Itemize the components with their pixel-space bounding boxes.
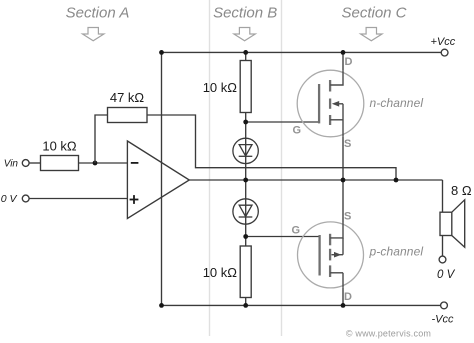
terminal 0V input <box>22 195 29 202</box>
op-amp U1 triangle <box>127 141 189 219</box>
junction feedback / output <box>394 178 399 183</box>
node inverting input junction <box>93 161 98 166</box>
wire feedback R2 to output node <box>147 115 396 180</box>
svg-text:S: S <box>344 211 351 223</box>
arrow Section C <box>361 28 382 41</box>
resistor R3 10k bias upper <box>240 61 251 113</box>
svg-text:10 kΩ: 10 kΩ <box>203 265 238 280</box>
wire source Q1 to output <box>342 137 344 180</box>
svg-text:Section B: Section B <box>213 5 277 22</box>
wire junction up to R2 <box>95 115 108 163</box>
junction top rail / Q1 drain <box>341 50 346 55</box>
svg-text:-Vcc: -Vcc <box>432 314 455 326</box>
wire source Q2 from output <box>342 180 344 222</box>
junction bottom rail / Q2 drain <box>341 303 346 308</box>
terminal 0V speaker <box>439 256 446 263</box>
resistor R1 10k input <box>41 156 79 171</box>
svg-text:D: D <box>345 56 353 68</box>
wire drain Q1 from top rail <box>342 52 344 70</box>
junction D2 / R4 / gate Q2 <box>243 234 248 239</box>
svg-text:D: D <box>344 291 352 303</box>
junction R3 / D1 / gate Q1 <box>243 120 248 125</box>
svg-text:G: G <box>292 225 301 237</box>
svg-text:n-channel: n-channel <box>370 96 424 110</box>
terminal Vin <box>22 160 29 167</box>
wire gate Q1 <box>246 121 319 123</box>
wire R1 to inverting input <box>79 162 128 164</box>
op-amp inverting input marker <box>131 162 139 164</box>
terminal -Vcc <box>441 302 448 309</box>
transistor Q1 n-channel MOSFET <box>297 70 364 137</box>
resistor R4 10k bias lower <box>240 246 251 298</box>
svg-text:0 V: 0 V <box>437 269 456 281</box>
arrow Section A <box>83 28 104 41</box>
speaker LS1 <box>440 200 465 247</box>
terminal +Vcc <box>441 49 448 56</box>
junction top rail / supply line <box>159 50 164 55</box>
junction sources / output <box>341 178 346 183</box>
wire -Vcc bottom rail <box>162 304 441 306</box>
wire output node through diode D2 to R4 <box>245 180 247 246</box>
svg-text:10 kΩ: 10 kΩ <box>203 80 238 95</box>
wire output to speaker <box>442 180 444 212</box>
svg-text:Vin: Vin <box>4 159 19 170</box>
svg-text:p-channel: p-channel <box>369 245 424 259</box>
svg-text:G: G <box>293 125 302 137</box>
svg-text:0 V: 0 V <box>1 193 18 205</box>
svg-text:Section A: Section A <box>66 5 130 22</box>
transistor Q2 p-channel MOSFET <box>298 222 364 288</box>
svg-text:47 kΩ: 47 kΩ <box>110 90 145 105</box>
wire op-amp output line <box>189 179 442 181</box>
diode D2 <box>233 199 258 224</box>
resistor R2 47k feedback <box>108 108 148 123</box>
arrow Section B <box>234 28 255 41</box>
section divider A/B <box>209 0 211 336</box>
svg-text:S: S <box>344 138 351 150</box>
op-amp non-inverting input marker <box>130 195 139 204</box>
wire speaker to 0V terminal <box>442 236 444 257</box>
wire gate Q2 <box>246 236 320 238</box>
section divider B/C <box>281 0 283 336</box>
junction bottom rail / R4 <box>243 303 248 308</box>
wire R3 through diode D1 to output node <box>245 113 247 181</box>
wire 0V to non-inverting input <box>29 198 127 200</box>
svg-text:+Vcc: +Vcc <box>431 36 456 48</box>
wire +Vcc top rail <box>162 51 442 53</box>
wire drain Q2 to bottom rail <box>342 288 344 306</box>
wire R4 to bottom rail <box>245 298 247 306</box>
junction diodes / output <box>243 178 248 183</box>
svg-text:8 Ω: 8 Ω <box>451 183 472 198</box>
wire Vin to R1 <box>29 162 40 164</box>
diode D1 <box>233 138 258 163</box>
svg-text:10 kΩ: 10 kΩ <box>42 139 77 154</box>
svg-text:Section C: Section C <box>341 5 406 22</box>
junction bottom rail / supply line <box>159 303 164 308</box>
svg-text:© www.petervis.com: © www.petervis.com <box>346 329 431 339</box>
junction top rail / R3 <box>243 50 248 55</box>
wire top rail to R3 <box>245 52 247 60</box>
wire op-amp supply rail (top rail to bottom rail through op-amp) <box>161 52 163 305</box>
